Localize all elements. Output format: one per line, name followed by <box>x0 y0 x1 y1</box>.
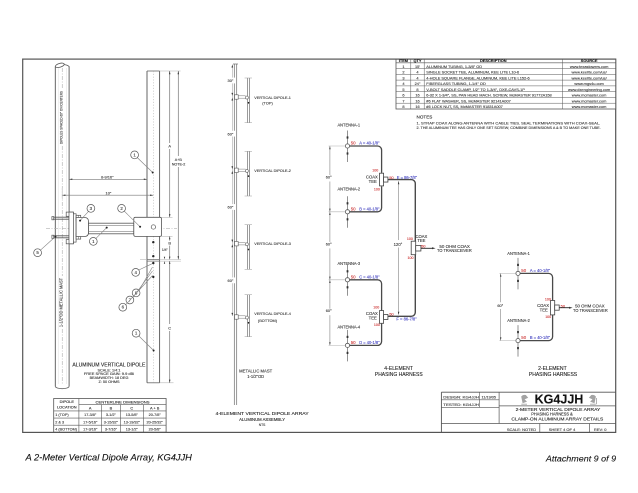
antenna-3 element <box>338 261 361 296</box>
svg-text:METALLIC MAST: METALLIC MAST <box>239 368 273 373</box>
svg-text:8: 8 <box>402 104 404 109</box>
svg-text:20-5/8": 20-5/8" <box>149 427 162 431</box>
screw dots on dipole tube <box>152 241 154 278</box>
dipole location dimensions table <box>54 399 166 433</box>
svg-text:1: 1 <box>402 64 404 69</box>
svg-text:ANTENNA-4: ANTENNA-4 <box>338 325 361 330</box>
svg-text:CLAMP-ON ALUMINUM ARRAY DETAIL: CLAMP-ON ALUMINUM ARRAY DETAILS <box>511 416 603 421</box>
svg-text:24": 24" <box>415 81 421 86</box>
V-bolt saddle clamp upper rod <box>52 217 74 220</box>
extension line dipole top <box>160 71 181 383</box>
clamp flange plate <box>66 212 76 244</box>
single socket tee body <box>76 218 88 237</box>
svg-text:4 (BOTTOM): 4 (BOTTOM) <box>55 427 78 431</box>
mast label: DIPOLES SPACED 60" ON CENTERS <box>60 90 64 144</box>
svg-text:60°: 60° <box>326 175 332 180</box>
2-element antenna-1 element <box>507 251 530 290</box>
mast tube (1-1/2"OD metallic mast) <box>55 62 69 388</box>
balloon 6 (leader to junction) <box>119 276 153 312</box>
svg-text:2 & 3: 2 & 3 <box>55 420 64 424</box>
4-hole square flange plate <box>134 217 162 236</box>
svg-text:SOURCE: SOURCE <box>581 58 598 63</box>
balloon 1 upper (leader to dipole tube) <box>131 151 154 174</box>
svg-text:6: 6 <box>402 93 404 98</box>
antenna-3 feed node 50 ohm <box>345 274 379 282</box>
antenna-2 element <box>338 187 361 228</box>
dimension 1/4" gap <box>162 248 169 264</box>
mast centerline <box>61 68 63 384</box>
balloon 1 arm (leader to arm tube) <box>89 227 107 246</box>
svg-text:www.mcmaster.com: www.mcmaster.com <box>572 99 607 104</box>
dipole tube lower element <box>147 236 160 382</box>
balloon 5 (leader to V-bolt) <box>34 236 57 257</box>
svg-text:100: 100 <box>407 237 413 241</box>
left drawing title: ALUMINUM VERTICAL DIPOLE <box>72 362 146 384</box>
svg-text:100: 100 <box>408 256 414 260</box>
svg-text:PHASING HARNESS: PHASING HARNESS <box>529 372 578 378</box>
wire coax tee 2 to center tee, F = 86-7/8" <box>388 255 417 322</box>
assembly horizontal centerline <box>46 227 177 229</box>
V-bolt saddle clamp lower rod <box>52 235 74 238</box>
svg-text:100: 100 <box>373 305 379 309</box>
svg-text:20-7/8": 20-7/8" <box>149 413 162 417</box>
2-element antenna-1 feed node <box>516 268 551 276</box>
svg-text:VERTICAL DIPOLE-1: VERTICAL DIPOLE-1 <box>254 95 290 100</box>
vertical dipole element 2 on mast <box>235 151 291 196</box>
svg-text:2. THE ALUMINUM TEE HAS ONLY O: 2. THE ALUMINUM TEE HAS ONLY ONE SET SCR… <box>417 125 601 130</box>
wire 2-element antenna-2 to tee <box>520 315 553 341</box>
svg-text:Z: 50 OHMS: Z: 50 OHMS <box>98 380 120 384</box>
svg-text:TEE: TEE <box>540 307 548 312</box>
center coax tee <box>407 234 428 260</box>
svg-text:B = 40-1/8": B = 40-1/8" <box>359 206 380 211</box>
wire antenna-3 to coax tee 2 <box>350 280 382 311</box>
svg-text:20-25/32": 20-25/32" <box>147 420 164 424</box>
svg-text:50: 50 <box>421 243 426 248</box>
svg-text:ANTENNA-1: ANTENNA-1 <box>507 251 530 256</box>
svg-text:KG4JJH: KG4JJH <box>535 392 584 407</box>
svg-text:5: 5 <box>402 87 404 92</box>
svg-text:SINGLE SOCKET TEE, ALUMINUM, K: SINGLE SOCKET TEE, ALUMINUM, KEE LITE L1… <box>426 70 519 75</box>
balloon 1 lower (leader to lower tube) <box>132 329 154 351</box>
bottom left caption <box>24 452 192 462</box>
dimension B <box>167 236 172 259</box>
assembly label METALLIC MAST <box>239 368 273 379</box>
clamp nuts and washers <box>76 215 81 239</box>
balloon 2 (leader to square flange) <box>118 205 141 228</box>
2-element coax tee <box>537 297 566 319</box>
arrow to transceiver (2-element) <box>559 303 608 313</box>
svg-text:www.texastowers.com: www.texastowers.com <box>570 64 608 69</box>
antenna-4 element <box>338 325 361 362</box>
dipole tube upper element <box>147 71 160 217</box>
svg-text:2: 2 <box>402 70 404 75</box>
svg-text:ANTENNA-2: ANTENNA-2 <box>338 187 361 192</box>
dimension 8-9/16" <box>69 175 147 180</box>
svg-text:1-1/2"OD: 1-1/2"OD <box>247 374 264 379</box>
svg-text:(TOP): (TOP) <box>262 101 273 106</box>
KG4JJH logo <box>535 392 584 407</box>
svg-text:17-3/8": 17-3/8" <box>84 413 97 417</box>
arrow to transceiver (4-element) <box>421 244 472 253</box>
svg-text:1-1/2"OD METALLIC MAST: 1-1/2"OD METALLIC MAST <box>59 277 64 327</box>
svg-text:4-HOLE SQUARE FLANGE, ALUMINUM: 4-HOLE SQUARE FLANGE, ALUMINUM, KEE LITE… <box>426 75 529 80</box>
svg-text:DESIGN: KG4JJH: DESIGN: KG4JJH <box>443 396 479 400</box>
wire coax tee 1 to center tee, E = 86-7/8" <box>388 175 418 241</box>
svg-text:50: 50 <box>521 268 526 273</box>
svg-text:REV: 0: REV: 0 <box>594 427 607 432</box>
svg-text:10": 10" <box>106 191 112 196</box>
svg-text:TEE: TEE <box>417 238 425 243</box>
dimension A+B NOTE-2 <box>171 71 186 259</box>
svg-text:ITEM: ITEM <box>399 58 408 63</box>
balloon 4 (leader to screw) <box>132 264 152 277</box>
antenna-1 feed node 50 ohm <box>345 141 380 149</box>
assembly mast double line <box>233 64 238 405</box>
wire antenna-4 to coax tee 2 <box>350 324 382 346</box>
svg-text:A 2-Meter Vertical Dipole Arra: A 2-Meter Vertical Dipole Array, KG4JJH <box>24 452 192 462</box>
dimension C <box>168 261 171 383</box>
antenna-1 element <box>338 122 361 162</box>
wire 2-element antenna-1 to tee <box>520 273 553 300</box>
svg-text:A: A <box>89 405 92 410</box>
dimension chain 60" antenna spacing (4-element) <box>325 146 345 345</box>
title block <box>441 392 615 432</box>
2-element antenna-2 element <box>507 318 530 357</box>
svg-text:www.mgs4u.com: www.mgs4u.com <box>574 81 603 86</box>
svg-text:ANTENNA-1: ANTENNA-1 <box>338 122 361 127</box>
svg-text:50: 50 <box>389 312 394 317</box>
svg-text:6-32 X 1-3/4", SS, PAN HEAD MA: 6-32 X 1-3/4", SS, PAN HEAD MACH. SCREW,… <box>426 93 551 98</box>
svg-text:A = 40-1/8": A = 40-1/8" <box>530 268 551 273</box>
svg-text:A = 40-1/8": A = 40-1/8" <box>359 141 380 146</box>
svg-text:3-15/32": 3-15/32" <box>104 420 119 424</box>
svg-text:www.mcmaster.com: www.mcmaster.com <box>572 93 607 98</box>
svg-text:16: 16 <box>415 99 419 104</box>
svg-text:E = 86-7/8": E = 86-7/8" <box>397 175 418 180</box>
notes <box>417 115 601 130</box>
svg-text:3-7/16": 3-7/16" <box>105 427 118 431</box>
title block bottom row <box>507 427 607 432</box>
svg-text:DESCRIPTION: DESCRIPTION <box>480 58 507 63</box>
svg-text:17-3/16": 17-3/16" <box>83 427 98 431</box>
svg-text:Attachment 9 of 9: Attachment 9 of 9 <box>545 454 616 464</box>
svg-text:50: 50 <box>389 175 394 180</box>
svg-text:C: C <box>168 325 171 330</box>
svg-text:100: 100 <box>374 188 380 192</box>
svg-text:VERTICAL DIPOLE-4: VERTICAL DIPOLE-4 <box>254 311 291 316</box>
svg-text:60°: 60° <box>326 308 332 313</box>
caption 4-element phasing harness <box>375 366 423 378</box>
svg-text:100: 100 <box>545 315 551 319</box>
coax tee 1 (antennas 1+2) <box>366 168 388 191</box>
assembly caption <box>216 411 310 427</box>
svg-text:50: 50 <box>351 206 356 211</box>
svg-text:QTY: QTY <box>414 58 422 63</box>
svg-text:1 (TOP): 1 (TOP) <box>55 413 69 417</box>
svg-text:TEE: TEE <box>369 315 377 320</box>
coax tee 2 (antennas 3+4) <box>366 305 388 327</box>
svg-text:DIPOLES SPACED 60" ON CENTERS: DIPOLES SPACED 60" ON CENTERS <box>60 90 64 144</box>
svg-text:VERTICAL DIPOLE-3: VERTICAL DIPOLE-3 <box>254 241 290 246</box>
svg-text:B = 40-1/8": B = 40-1/8" <box>530 335 551 340</box>
balloon 8 (leader to junction) <box>132 267 152 297</box>
svg-text:CENTERLINE DIMENSIONS: CENTERLINE DIMENSIONS <box>96 399 150 404</box>
svg-text:B: B <box>168 241 171 246</box>
svg-text:C: C <box>130 405 133 410</box>
svg-text:50: 50 <box>351 274 356 279</box>
svg-text:FIBERGLASS TUBING, 1-1/4" OD: FIBERGLASS TUBING, 1-1/4" OD <box>426 81 486 86</box>
svg-text:13-1/2": 13-1/2" <box>126 427 139 431</box>
svg-text:TESTED: KG4JJH: TESTED: KG4JJH <box>443 403 479 407</box>
svg-text:11/19/05: 11/19/05 <box>482 396 497 400</box>
2-element antenna-2 feed node <box>516 335 551 343</box>
svg-text:#6 FLAT WASHER, SS, McMASTER 9: #6 FLAT WASHER, SS, McMASTER 92141A007 <box>426 99 510 104</box>
svg-text:7: 7 <box>402 99 404 104</box>
svg-text:100: 100 <box>372 168 378 172</box>
antenna-4 feed node 50 ohm <box>345 340 379 348</box>
vertical dipole element 1 on mast <box>235 78 291 123</box>
svg-text:1/4": 1/4" <box>162 248 169 252</box>
balloon 7 (leader to junction) <box>126 271 153 304</box>
svg-text:ALUMINUM TUBING, 1-3/8" OD: ALUMINUM TUBING, 1-3/8" OD <box>426 64 482 69</box>
assembly mast spacing dimensions 30"/60" <box>227 65 236 317</box>
svg-text:13-19/32": 13-19/32" <box>124 420 141 424</box>
svg-text:3: 3 <box>402 75 404 80</box>
svg-text:LOCATION: LOCATION <box>57 404 77 409</box>
svg-text:A: A <box>168 144 171 149</box>
svg-text:#6 LOCK NUT, SS, McMASTER 9183: #6 LOCK NUT, SS, McMASTER 91831A007 <box>426 104 503 109</box>
svg-text:www.dxengineering.com: www.dxengineering.com <box>568 87 610 92</box>
svg-text:F = 86-7/8": F = 86-7/8" <box>396 316 417 321</box>
svg-text:100: 100 <box>374 323 380 327</box>
svg-text:60°: 60° <box>326 241 332 246</box>
vertical dipole element 3 on mast <box>235 225 291 270</box>
svg-text:A + B: A + B <box>150 405 160 410</box>
wire antenna-1 to coax tee 1 <box>350 146 382 173</box>
svg-text:16: 16 <box>415 93 419 98</box>
dipole tube centerline <box>152 71 154 383</box>
svg-text:17-5/16": 17-5/16" <box>83 420 98 424</box>
bottom right caption <box>545 454 616 464</box>
wire antenna-2 to coax tee 1 <box>350 186 382 212</box>
svg-text:www.mcmaster.com: www.mcmaster.com <box>572 104 607 109</box>
svg-text:(BOTTOM): (BOTTOM) <box>258 318 278 323</box>
svg-text:13-5/8": 13-5/8" <box>126 413 139 417</box>
svg-text:50: 50 <box>351 340 356 345</box>
svg-text:B: B <box>110 405 113 410</box>
dimension 120 deg between tees <box>393 181 405 315</box>
svg-text:60": 60" <box>228 278 234 283</box>
drawing border frame <box>23 59 616 432</box>
mast label: 1-1/2"OD METALLIC MAST <box>59 277 64 327</box>
svg-text:50: 50 <box>521 335 526 340</box>
dimension A <box>168 71 171 217</box>
svg-text:30": 30" <box>228 78 234 83</box>
svg-text:PHASING HARNESS: PHASING HARNESS <box>375 372 423 378</box>
svg-text:ANTENNA-2: ANTENNA-2 <box>507 318 530 323</box>
svg-text:ANTENNA-3: ANTENNA-3 <box>338 261 361 266</box>
horizontal arm tube <box>89 223 134 234</box>
svg-text:15': 15' <box>415 64 420 69</box>
svg-text:TO TRANSCEIVER: TO TRANSCEIVER <box>573 308 608 313</box>
svg-text:SCALE: NOTED: SCALE: NOTED <box>507 427 536 432</box>
svg-text:D = 40-1/8": D = 40-1/8" <box>359 340 380 345</box>
svg-text:TO TRANSCEIVER: TO TRANSCEIVER <box>437 248 472 253</box>
svg-text:www.keelite.com/us/: www.keelite.com/us/ <box>571 75 607 80</box>
svg-text:60": 60" <box>228 131 234 136</box>
caption 2-element phasing harness <box>529 366 578 378</box>
svg-text:VERTICAL DIPOLE-2: VERTICAL DIPOLE-2 <box>254 168 290 173</box>
svg-text:50: 50 <box>351 141 356 146</box>
svg-text:120°: 120° <box>394 242 403 247</box>
tube junction gap lines <box>140 259 181 261</box>
svg-text:8-9/16": 8-9/16" <box>101 175 114 180</box>
svg-text:www.keelite.com/us/: www.keelite.com/us/ <box>571 70 607 75</box>
svg-text:TEE: TEE <box>369 179 377 184</box>
svg-text:60°: 60° <box>497 303 503 308</box>
svg-text:8: 8 <box>416 87 418 92</box>
svg-text:3-1/2": 3-1/2" <box>106 413 117 417</box>
svg-text:V-BOLT SADDLE CLAMP, 1/2" TO 1: V-BOLT SADDLE CLAMP, 1/2" TO 1-3/4", DXE… <box>426 87 525 92</box>
svg-text:A+B: A+B <box>175 158 183 162</box>
title block drawing title <box>511 407 603 422</box>
svg-text:16: 16 <box>415 104 419 109</box>
vertical dipole element 4 on mast <box>235 295 292 337</box>
dimension 60" (2-element) <box>497 273 515 340</box>
svg-text:NOTE-2: NOTE-2 <box>172 163 186 167</box>
balloon 3 (leader to clamp nuts) <box>79 205 95 222</box>
svg-text:NOTES: NOTES <box>417 115 433 120</box>
logo left flag icon <box>521 395 528 404</box>
svg-text:4-ELEMENT VERTICAL DIPOLE ARRA: 4-ELEMENT VERTICAL DIPOLE ARRAY <box>216 411 310 417</box>
svg-text:100: 100 <box>545 297 551 301</box>
logo right flag icon <box>589 395 597 404</box>
parts list table <box>396 58 616 109</box>
svg-text:SHEET 4 OF 4: SHEET 4 OF 4 <box>549 427 576 432</box>
title block design/tested cells <box>443 396 496 408</box>
svg-text:C = 40-1/8": C = 40-1/8" <box>359 274 380 279</box>
antenna-2 feed node 50 ohm <box>345 206 379 214</box>
svg-text:60": 60" <box>228 205 234 210</box>
svg-text:NTS: NTS <box>259 423 266 427</box>
dimension 10" <box>62 188 153 199</box>
